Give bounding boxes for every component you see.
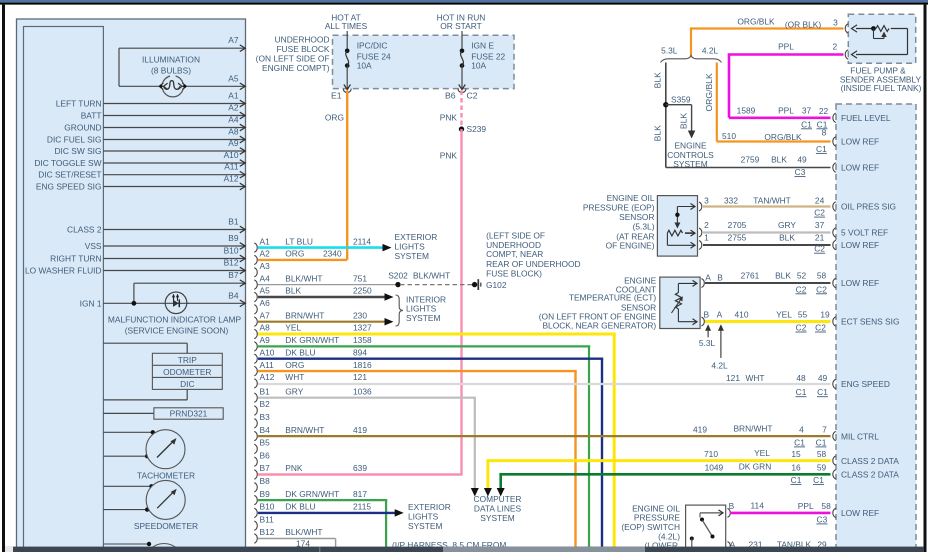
- label LOW REF: [841, 163, 879, 173]
- svg-text:DK BLU: DK BLU: [285, 502, 315, 512]
- pin label A6: [260, 298, 271, 308]
- illumination lamp symbol: [159, 76, 186, 97]
- svg-text:1327: 1327: [353, 323, 372, 333]
- svg-text:3: 3: [704, 195, 709, 205]
- svg-text:CLASS 2 DATA: CLASS 2 DATA: [841, 470, 899, 480]
- wire PNK dashed segment: [460, 91, 462, 130]
- svg-text:B12: B12: [224, 258, 239, 268]
- wire A7 BRN/WHT 230: [258, 321, 388, 323]
- svg-text:ENGINE COMPT): ENGINE COMPT): [262, 63, 330, 73]
- pin bracket B3: [254, 419, 257, 428]
- interior lights brace: [396, 295, 404, 326]
- svg-text:C1: C1: [791, 475, 802, 485]
- svg-text:BLK: BLK: [285, 286, 301, 296]
- label HOT AT ALL TIMES: [325, 13, 368, 32]
- pin label B: [729, 501, 735, 511]
- ECT sensor box: [660, 277, 700, 328]
- label IGN E FUSE 22 10A: [471, 41, 505, 71]
- pin labels B A bottom: [704, 310, 723, 320]
- label BLK lower rotated: [653, 125, 663, 142]
- instrument cluster inner box: [24, 27, 104, 552]
- pin bracket A6: [254, 305, 257, 314]
- ECT pin brackets: [702, 279, 705, 327]
- wire DK GRN 1049 class 2 data: [501, 473, 831, 489]
- label 2755 BLK 21: [728, 232, 825, 242]
- fuel pump pin 3 connector: [845, 24, 857, 33]
- wire PPL fuel pump to fuel level: [729, 53, 844, 118]
- svg-text:10A: 10A: [471, 61, 486, 71]
- svg-text:A6: A6: [260, 298, 271, 308]
- svg-text:C1: C1: [817, 387, 828, 397]
- pin label A5: [228, 73, 239, 83]
- svg-text:(8 BULBS): (8 BULBS): [151, 66, 191, 76]
- label CLASS 2: [67, 225, 102, 235]
- svg-text:TRIP: TRIP: [178, 355, 197, 365]
- label 2761 BLK 52 58: [741, 270, 827, 280]
- TRIP ODOMETER DIC box: [152, 353, 222, 389]
- svg-text:COMPUTER: COMPUTER: [474, 494, 522, 504]
- label 710 YEL 15 58: [704, 448, 826, 459]
- svg-text:C1: C1: [794, 437, 805, 447]
- svg-text:BLK/WHT: BLK/WHT: [413, 271, 450, 281]
- arrow A1 to exterior lights: [383, 244, 392, 252]
- wire RIGHT TURN to pin B10: [103, 255, 245, 262]
- wire illumination left side: [118, 48, 120, 86]
- pin bracket A8: [254, 329, 257, 338]
- svg-text:C2: C2: [796, 323, 807, 333]
- label G102: [486, 280, 507, 290]
- svg-text:CLASS 2: CLASS 2: [67, 225, 102, 235]
- svg-text:SYSTEM: SYSTEM: [408, 521, 442, 531]
- svg-text:PRESSURE: PRESSURE: [634, 512, 680, 522]
- svg-text:B10: B10: [260, 502, 275, 512]
- window left border: [2, 5, 5, 552]
- label (I/P HARNESS, 8.5 CM FROM: [392, 540, 506, 550]
- svg-text:S359: S359: [671, 94, 691, 104]
- pin label B12: [224, 258, 239, 268]
- label 410 YEL 55 19: [735, 310, 830, 320]
- label 114 PPL 58: [751, 500, 832, 511]
- arrow DK GRN down to computer data lines: [497, 488, 505, 497]
- PCM pin bracket OIL PRES SIG y206: [833, 202, 836, 211]
- svg-text:IPC/DIC: IPC/DIC: [357, 41, 388, 51]
- label 5 VOLT REF: [841, 228, 888, 238]
- svg-text:B7: B7: [228, 270, 239, 280]
- wire B7 from junction: [134, 280, 245, 287]
- svg-text:ORG/BLK: ORG/BLK: [764, 132, 802, 142]
- svg-text:A5: A5: [228, 73, 239, 83]
- svg-text:24: 24: [815, 195, 825, 205]
- svg-text:2755: 2755: [728, 232, 747, 242]
- malfunction indicator lamp symbol: [165, 292, 189, 314]
- wire ORG/BLK 4.2L branch: [717, 63, 831, 142]
- label HOT IN RUN OR START: [437, 13, 486, 32]
- svg-text:332: 332: [724, 195, 738, 205]
- pin label B4: [228, 290, 239, 300]
- labels B9 DK GRN/WHT 817: [285, 489, 367, 499]
- svg-text:PNK: PNK: [285, 463, 303, 473]
- label PNK upper: [440, 113, 458, 123]
- labels A10 DK BLU 894: [285, 347, 367, 357]
- svg-text:BRN/WHT: BRN/WHT: [733, 424, 772, 434]
- pin label A3: [260, 261, 271, 271]
- wire A8 YEL 1327: [258, 334, 616, 547]
- pin label B1: [228, 217, 239, 227]
- svg-text:SPEEDOMETER: SPEEDOMETER: [134, 521, 198, 531]
- svg-text:DK BLU: DK BLU: [285, 347, 315, 357]
- labels A11 ORG 1816: [285, 360, 372, 370]
- wire A7 illumination top: [119, 45, 245, 52]
- svg-text:A11: A11: [260, 360, 275, 370]
- label 1049 DK GRN 16 59: [705, 462, 827, 473]
- pin bracket A3: [254, 268, 257, 277]
- svg-text:LO WASHER FLUID: LO WASHER FLUID: [25, 266, 101, 276]
- label TACHOMETER: [137, 470, 195, 480]
- svg-text:58: 58: [817, 449, 827, 459]
- wire A2 ORG 2340: [258, 259, 347, 261]
- labels C2 C2 under 52 58: [796, 284, 828, 294]
- label MALFUNCTION INDICATOR LAMP: [108, 314, 242, 335]
- svg-text:B11: B11: [260, 514, 275, 524]
- wire B7 PNK 639: [258, 473, 463, 475]
- svg-text:ORG: ORG: [285, 360, 304, 370]
- svg-text:A1: A1: [260, 236, 271, 246]
- PRND321 box: [154, 408, 223, 419]
- svg-text:GROUND: GROUND: [64, 123, 101, 133]
- pin bracket B2: [254, 406, 257, 415]
- wire B1 GRY 1036: [258, 398, 476, 489]
- wire BLK 2759 to low ref: [666, 167, 831, 169]
- pin label A8: [260, 323, 271, 333]
- wire A12 WHT 121 to eng speed: [258, 383, 831, 385]
- EOP sensor box: [657, 196, 697, 257]
- pin bracket A9: [254, 342, 257, 351]
- wire A5 illumination bottom: [119, 83, 245, 90]
- label RIGHT TURN: [50, 254, 101, 264]
- svg-text:DIC FUEL SIG: DIC FUEL SIG: [47, 135, 102, 145]
- label ILLUMINATION: [142, 55, 200, 76]
- svg-text:B6: B6: [445, 90, 456, 100]
- svg-text:(5.3L): (5.3L): [633, 222, 655, 232]
- svg-text:410: 410: [735, 310, 749, 320]
- wire PNK vertical to B7: [460, 129, 462, 474]
- pin label 3 fuel pump: [833, 18, 838, 28]
- label C3 under 49: [795, 167, 806, 177]
- PCM pin bracket LOW REF y512: [833, 508, 836, 517]
- svg-text:16: 16: [791, 463, 801, 473]
- label PNK lower: [440, 151, 458, 161]
- svg-text:419: 419: [693, 424, 707, 434]
- svg-text:(SERVICE ENGINE SOON): (SERVICE ENGINE SOON): [125, 326, 229, 336]
- svg-text:ALL TIMES: ALL TIMES: [325, 21, 368, 31]
- svg-text:ORG: ORG: [325, 113, 344, 123]
- fuse IGN E FUSE 22 10A: [458, 31, 466, 93]
- arrow A7 to interior lights: [385, 318, 394, 326]
- svg-text:C3: C3: [817, 514, 828, 524]
- PCM pin bracket ENG SPEED y384: [833, 379, 836, 388]
- svg-text:VSS: VSS: [85, 241, 102, 251]
- labels C1 C1 under fuel level: [801, 119, 828, 129]
- label SPEEDOMETER: [134, 521, 198, 531]
- svg-text:2: 2: [704, 220, 709, 230]
- svg-text:PNK: PNK: [440, 113, 458, 123]
- wire DIC SET/RESET to pin A11: [103, 171, 245, 178]
- PCM pin bracket ECT SENS SIG y321: [833, 317, 836, 326]
- fuel gauge partial: [145, 544, 184, 552]
- pin label B2: [260, 399, 271, 409]
- pin label 8: [822, 128, 827, 138]
- label LOW REF: [841, 240, 879, 250]
- svg-text:SYSTEM: SYSTEM: [480, 513, 514, 523]
- EOP switch box: [686, 505, 726, 552]
- svg-text:B12: B12: [260, 527, 275, 537]
- pin bracket B12: [254, 534, 257, 543]
- label 121 WHT 48 49 right: [726, 373, 827, 383]
- svg-text:BRN/WHT: BRN/WHT: [285, 425, 324, 435]
- svg-text:ORG/BLK: ORG/BLK: [737, 17, 775, 27]
- pin bracket A10: [254, 354, 257, 363]
- labels A8 YEL 1327: [285, 323, 372, 333]
- svg-text:SYSTEM: SYSTEM: [395, 251, 429, 261]
- svg-text:B3: B3: [260, 412, 271, 422]
- wire IGN 1 to pin B4: [103, 300, 245, 307]
- svg-text:37: 37: [802, 106, 812, 116]
- pin bracket A12: [254, 379, 257, 388]
- pin label 2 fuel pump: [832, 41, 837, 51]
- labels A4 BLK/WHT 751: [285, 273, 367, 283]
- svg-text:230: 230: [353, 310, 367, 320]
- svg-text:E1: E1: [331, 90, 342, 100]
- svg-text:B4: B4: [228, 290, 239, 300]
- svg-text:B9: B9: [260, 489, 271, 499]
- svg-text:B: B: [729, 501, 735, 511]
- svg-text:A: A: [705, 272, 711, 282]
- label DIC SW SIG: [55, 146, 102, 156]
- EOP sensor internal wiring: [667, 204, 695, 249]
- svg-text:ORG: ORG: [285, 249, 304, 259]
- PCM pin bracket CLASS 2 DATA y474: [833, 470, 836, 479]
- svg-text:WHT: WHT: [285, 372, 304, 382]
- svg-text:CLASS 2 DATA: CLASS 2 DATA: [841, 456, 899, 466]
- label GROUND: [64, 123, 101, 133]
- PCM pin bracket LOW REF y283: [833, 278, 836, 287]
- svg-text:OIL PRES SIG: OIL PRES SIG: [841, 202, 896, 212]
- svg-text:GRY: GRY: [778, 220, 796, 230]
- svg-text:C2: C2: [815, 323, 826, 333]
- svg-text:DK GRN/WHT: DK GRN/WHT: [285, 335, 339, 345]
- pin label A9: [260, 335, 271, 345]
- EOP switch symbol: [690, 510, 723, 547]
- svg-text:BLK: BLK: [771, 154, 787, 164]
- label C2 under 24: [814, 208, 825, 218]
- label ENGINE OIL PRESSURE (EOP) SWITCH (4.2L) (LOWER: [621, 504, 680, 551]
- svg-text:BATT: BATT: [81, 111, 102, 121]
- label ENGINE COOLANT TEMPERATURE (ECT) SENSOR (ON LEFT FRONT OF ENGINE BLOCK, NEAR GENERATOR): [539, 275, 657, 330]
- label (OR BLK): [785, 20, 822, 30]
- svg-text:751: 751: [353, 273, 367, 283]
- svg-text:A10: A10: [224, 150, 239, 160]
- wire YEL 410 ect sens sig: [705, 320, 831, 323]
- wire ORG/BLK to fuel pump pin 3: [691, 27, 844, 56]
- svg-text:PRND321: PRND321: [170, 409, 208, 419]
- svg-text:2761: 2761: [741, 270, 760, 280]
- label ORG/BLK top: [737, 17, 775, 27]
- svg-text:DK GRN: DK GRN: [739, 462, 772, 472]
- label 2759 BLK 49: [741, 154, 807, 164]
- pin label B10: [260, 502, 275, 512]
- pin label A12: [224, 174, 239, 184]
- wire DIC SW SIG to pin A9: [103, 148, 245, 155]
- label BATT: [81, 111, 102, 121]
- svg-text:4.2L: 4.2L: [711, 360, 728, 370]
- PCM pin bracket FUEL LEVEL y117: [833, 113, 836, 122]
- pin label B5: [260, 438, 271, 448]
- pin label B6: [445, 90, 456, 100]
- labels B12 BLK/WHT: [285, 527, 322, 537]
- label OIL PRES SIG: [841, 202, 896, 212]
- pin label A11: [260, 360, 275, 370]
- label 332 TAN/WHT 24: [724, 195, 825, 205]
- svg-text:IGN 1: IGN 1: [80, 298, 102, 308]
- svg-text:BLK/WHT: BLK/WHT: [285, 273, 322, 283]
- pin label A8: [228, 127, 239, 137]
- svg-text:3: 3: [833, 18, 838, 28]
- pin bracket B7: [254, 470, 257, 479]
- labels C1 C1 under mil ctrl: [794, 437, 827, 447]
- label BLK branch rotated: [679, 113, 689, 130]
- labels B4 BRN/WHT 419: [285, 425, 367, 435]
- pin label A1: [260, 236, 271, 246]
- wire CLASS 2 to pin B1: [103, 226, 245, 233]
- pin label B12: [260, 527, 275, 537]
- wire BLK 2761 low ref: [705, 282, 831, 284]
- engine split brace 5.3L/4.2L: [661, 56, 722, 63]
- pin labels A B top: [705, 272, 723, 282]
- pin label A10: [224, 150, 239, 160]
- svg-text:LT BLU: LT BLU: [285, 236, 313, 246]
- wire A4 BLK/WHT 751: [258, 284, 398, 286]
- svg-text:59: 59: [817, 463, 827, 473]
- PCM pin bracket LOW REF y141: [833, 137, 836, 146]
- bottom scrollbar track: [5, 547, 924, 552]
- pin label B1: [260, 386, 271, 396]
- label 2705 GRY 37: [728, 220, 825, 230]
- EOP sensor pin brackets: [699, 202, 702, 250]
- svg-text:MALFUNCTION INDICATOR LAMP: MALFUNCTION INDICATOR LAMP: [108, 314, 242, 324]
- labels B1 GRY 1036: [285, 386, 372, 396]
- wire BATT to pin A2: [103, 112, 245, 119]
- pin bracket A7: [254, 317, 257, 326]
- svg-text:REAR OF UNDERHOOD: REAR OF UNDERHOOD: [486, 259, 580, 269]
- pin label B11: [260, 514, 275, 524]
- labels A5 BLK 2250: [285, 286, 372, 296]
- label EXTERIOR LIGHTS SYSTEM top: [395, 232, 438, 261]
- label 231 TAN/BLK 29: [749, 540, 827, 550]
- svg-text:121: 121: [726, 373, 740, 383]
- svg-text:B4: B4: [260, 425, 271, 435]
- wire LEFT TURN to pin A1: [103, 100, 245, 107]
- pin bracket A4: [254, 280, 257, 289]
- label ORG/BLK rotated: [704, 73, 714, 111]
- svg-text:(ON LEFT SIDE OF: (ON LEFT SIDE OF: [256, 54, 330, 64]
- label ECT SENS SIG: [841, 317, 900, 327]
- label DIC TOGGLE SW: [34, 158, 101, 168]
- svg-text:A11: A11: [224, 162, 239, 172]
- wire A1 LT BLU 2114: [258, 246, 386, 249]
- labels C2 C2 under 55 19: [796, 323, 827, 333]
- svg-text:2250: 2250: [353, 286, 372, 296]
- svg-text:5.3L: 5.3L: [699, 338, 716, 348]
- pin label A11: [224, 162, 239, 172]
- svg-text:B9: B9: [228, 233, 239, 243]
- label INTERIOR LIGHTS SYSTEM: [406, 294, 446, 323]
- svg-text:52: 52: [797, 270, 807, 280]
- pin label A4: [260, 273, 271, 283]
- wire LO WASHER FLUID to pin B12: [103, 267, 245, 274]
- svg-text:MIL CTRL: MIL CTRL: [841, 431, 879, 441]
- svg-text:510: 510: [722, 131, 736, 141]
- tachometer gauge: [146, 430, 185, 469]
- wire ORG fuse24 vertical: [346, 91, 348, 260]
- pin label A2: [260, 249, 271, 259]
- underhood fuse block box: [333, 35, 515, 88]
- svg-text:B5: B5: [260, 438, 271, 448]
- svg-text:COMPT, NEAR: COMPT, NEAR: [486, 249, 543, 259]
- label UNDERHOOD FUSE BLOCK: [256, 35, 330, 74]
- wire TAN/WHT 332 oil pres sig: [703, 205, 831, 207]
- wire VSS to pin B9: [103, 243, 245, 250]
- label ORG/BLK mid: [764, 132, 802, 142]
- instrument cluster panel: [17, 19, 246, 552]
- svg-text:A1: A1: [228, 91, 239, 101]
- label LOW REF: [841, 137, 879, 147]
- svg-text:IGN E: IGN E: [471, 41, 494, 51]
- svg-text:A2: A2: [228, 103, 239, 113]
- fuel sender resistor symbol: [856, 26, 908, 55]
- labels A1 LT BLU 2114: [285, 236, 371, 246]
- PCM pin bracket MIL CTRL y436: [833, 431, 836, 440]
- svg-text:1816: 1816: [353, 360, 372, 370]
- pin bracket A5: [254, 292, 257, 301]
- svg-text:YEL: YEL: [285, 323, 301, 333]
- svg-text:C2: C2: [814, 244, 825, 254]
- window top bar: [0, 0, 928, 5]
- svg-text:A4: A4: [260, 273, 271, 283]
- svg-text:LOW REF: LOW REF: [841, 240, 879, 250]
- svg-text:WHT: WHT: [745, 373, 764, 383]
- svg-text:A: A: [717, 310, 723, 320]
- fuel pump & sender assembly box: [848, 14, 915, 63]
- svg-text:7: 7: [822, 424, 827, 434]
- svg-text:58: 58: [817, 270, 827, 280]
- arrow A5 to interior lights: [385, 293, 394, 301]
- label ENG SPEED SIG: [36, 182, 102, 192]
- svg-text:2340: 2340: [323, 249, 342, 259]
- labels B10 DK BLU 2115: [285, 502, 371, 512]
- svg-text:C3: C3: [795, 167, 806, 177]
- wire to tachometer top: [103, 430, 155, 434]
- svg-text:19: 19: [820, 310, 830, 320]
- wire A5 BLK 2250: [258, 296, 388, 298]
- label CLASS 2 DATA: [841, 470, 899, 480]
- label 4.2L top: [702, 45, 719, 55]
- label BLK/WHT after S202: [413, 271, 450, 281]
- wire GRY 2705 5 volt ref: [703, 231, 831, 233]
- svg-text:YEL: YEL: [754, 448, 770, 458]
- wire DIC TOGGLE SW to pin A10: [103, 160, 245, 167]
- label COMPUTER DATA LINES SYSTEM: [474, 494, 522, 523]
- svg-text:ECT SENS SIG: ECT SENS SIG: [841, 317, 900, 327]
